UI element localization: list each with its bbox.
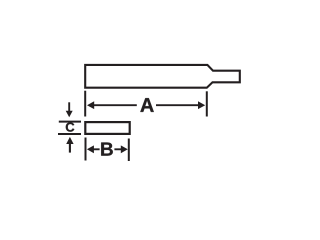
dimension C top extension line (59, 121, 81, 123)
label A (140, 98, 153, 112)
dimension A right arrow (198, 101, 205, 109)
dimension C up arrow (69, 144, 71, 153)
dimension A left arrow (87, 101, 94, 109)
dimension C bottom extension line (58, 133, 81, 135)
cross-section rectangle (85, 122, 129, 134)
label B (101, 143, 113, 156)
dimension B right arrow (121, 145, 128, 153)
dimension A right extension line (206, 91, 208, 116)
dimension B left arrow (87, 145, 94, 153)
dimension A left extension line (84, 91, 86, 117)
dimension C down arrow (68, 102, 70, 111)
dimension B right extension line (128, 139, 130, 162)
dimension B left extension line (85, 138, 87, 161)
label C (66, 122, 75, 131)
file body outline (85, 65, 240, 88)
